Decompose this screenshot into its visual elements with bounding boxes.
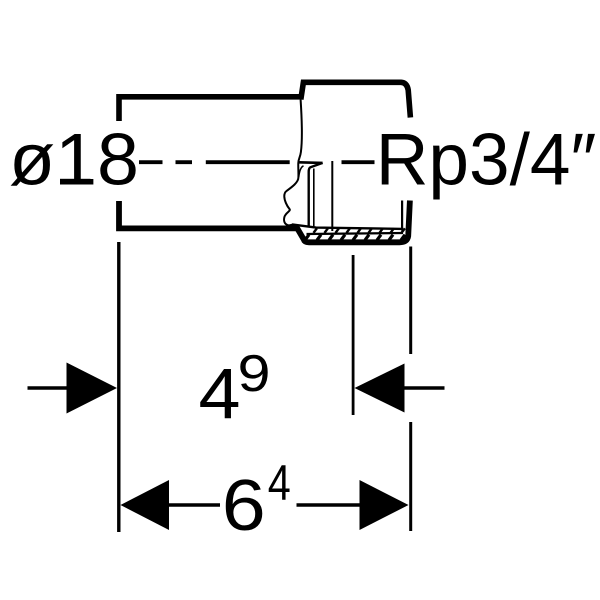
extension line right lower bbox=[409, 422, 412, 531]
left socket top outline with left tick bbox=[119, 97, 301, 121]
dim 64 right arrow bbox=[360, 480, 409, 530]
thread hatch upper 9 bbox=[402, 228, 405, 233]
thread depth vertical bbox=[331, 161, 333, 231]
right socket top outline with step and right tick bbox=[301, 82, 411, 117]
centerline dash 3 bbox=[206, 160, 290, 164]
svg-text:ø18: ø18 bbox=[9, 120, 139, 201]
thread hatch lower 9 bbox=[401, 235, 405, 240]
thread hatch upper 5 bbox=[358, 228, 361, 233]
dim 49 left arrow bbox=[67, 363, 118, 414]
break line beak lower V piece bbox=[299, 166, 304, 177]
svg-text:9: 9 bbox=[238, 345, 271, 403]
dim 49 right tail bbox=[405, 386, 445, 390]
dim 64 right tail bbox=[297, 503, 360, 507]
thread hatch upper 6 bbox=[369, 228, 372, 233]
thread hatch lower 8 bbox=[389, 235, 393, 240]
inner right wall vertical bbox=[401, 201, 403, 231]
thread hatch upper 1 bbox=[314, 228, 317, 233]
extension line left bbox=[117, 242, 120, 532]
thread hatch lower 7 bbox=[377, 235, 381, 240]
thread hatch lower 3 bbox=[329, 235, 333, 240]
svg-text:Rp3/4″: Rp3/4″ bbox=[376, 120, 597, 201]
centerline dash 2 bbox=[176, 160, 193, 164]
thread hatch upper 2 bbox=[325, 228, 328, 233]
thread hatch lower 1 bbox=[305, 235, 309, 240]
dim 64 left tail bbox=[169, 503, 220, 507]
thread hatch lower 6 bbox=[365, 235, 369, 240]
dim 64 left arrow bbox=[121, 480, 170, 530]
bore edge thin vertical bbox=[313, 169, 315, 228]
dim 49 left tail bbox=[28, 386, 68, 390]
svg-text:4: 4 bbox=[268, 455, 291, 511]
extension line right upper bbox=[409, 247, 412, 355]
break line (wavy) bbox=[284, 100, 302, 226]
dim 49 right arrow bbox=[355, 364, 405, 413]
thread hatch lower 2 bbox=[317, 235, 321, 240]
right socket bottom outline with step and corner bbox=[297, 201, 410, 243]
break line beak return and bore edge bbox=[309, 163, 323, 227]
left socket bottom outline with left tick bbox=[119, 201, 299, 228]
thread hatch upper 7 bbox=[380, 228, 383, 233]
label 1 foot serif bbox=[60, 179, 91, 185]
extension line middle bbox=[352, 255, 355, 415]
thread hatch lower 5 bbox=[353, 235, 357, 240]
centerline dash 1 bbox=[139, 160, 163, 164]
thread hatch upper 8 bbox=[391, 228, 394, 233]
thread band middle line B bbox=[307, 233, 404, 234]
svg-text:4: 4 bbox=[199, 355, 241, 434]
thread band top line A bbox=[292, 224, 403, 229]
centerline dash 4 bbox=[342, 160, 375, 164]
thread hatch upper 4 bbox=[347, 228, 350, 233]
thread hatch lower 4 bbox=[341, 235, 345, 240]
break line beak upper bar bbox=[299, 161, 323, 164]
svg-text:6: 6 bbox=[222, 466, 266, 546]
thread hatch upper 3 bbox=[336, 228, 339, 233]
